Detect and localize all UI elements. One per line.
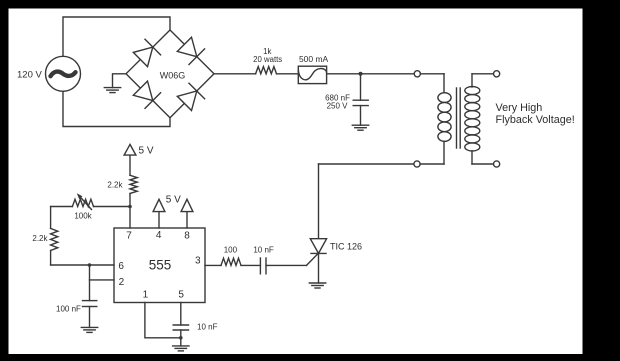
power arrow 5V pin 8 xyxy=(186,212,188,228)
svg-text:1: 1 xyxy=(143,290,149,301)
junction node xyxy=(359,72,363,76)
svg-text:555: 555 xyxy=(149,258,172,273)
svg-text:10 nF: 10 nF xyxy=(197,322,218,331)
ground below SCR xyxy=(309,282,325,284)
svg-text:20 watts: 20 watts xyxy=(253,55,282,64)
svg-text:5 V: 5 V xyxy=(166,194,181,205)
wire R3 to 5V arrow xyxy=(129,155,131,175)
transformer core xyxy=(456,88,458,148)
wire junction down to C3 xyxy=(89,265,91,301)
wire anode from bottom rail xyxy=(318,164,320,239)
wire secondary top to terminal xyxy=(472,73,494,75)
power arrow 5V pin 4 xyxy=(158,212,160,228)
svg-text:2.2k: 2.2k xyxy=(107,181,123,190)
wire terminal to primary coil xyxy=(420,73,444,75)
resistor R3 2.2k xyxy=(130,175,137,193)
node terminal primary bottom xyxy=(414,161,420,167)
ground below C3 xyxy=(81,326,97,328)
junction pot/pin7 xyxy=(128,205,132,209)
IC U1 555 xyxy=(114,228,205,303)
junction pin6/cap branch xyxy=(88,263,92,267)
svg-text:100k: 100k xyxy=(74,212,92,221)
node terminal secondary bottom xyxy=(494,161,500,167)
junction pin1/C4 xyxy=(179,336,183,340)
wire pin7 to resistor R3 xyxy=(129,194,131,207)
capacitor C4 10 nF xyxy=(173,324,188,326)
capacitor C2 10 nF (coupling) xyxy=(259,258,261,274)
svg-text:5: 5 xyxy=(178,290,184,301)
wire pin 7 stub xyxy=(129,207,131,229)
wire top-left from source to bridge xyxy=(63,17,170,56)
wire bottom rail to primary xyxy=(319,163,414,165)
svg-text:3: 3 xyxy=(195,255,201,266)
svg-text:8: 8 xyxy=(184,231,190,242)
svg-text:10 nF: 10 nF xyxy=(253,246,274,255)
AC source V1 120 V xyxy=(46,56,81,91)
wire R5 to pin6 rail xyxy=(50,251,52,266)
svg-text:5 V: 5 V xyxy=(139,145,154,156)
diode D4 (bottom to right edge) xyxy=(177,91,197,111)
wire R2 to C2 xyxy=(241,264,260,266)
capacitor C3 100 nF xyxy=(83,300,97,302)
wire pin 6 xyxy=(51,264,114,266)
diode D2 (top to right edge) xyxy=(177,37,197,57)
wire left branch down xyxy=(50,207,52,229)
wire terminal to primary coil bottom xyxy=(420,163,444,165)
wire secondary bottom to terminal xyxy=(472,163,494,165)
ground below C4 xyxy=(173,345,189,347)
node terminal primary top xyxy=(414,71,420,77)
svg-text:Very High: Very High xyxy=(496,102,543,114)
ground below C1 xyxy=(352,124,368,126)
wire pin 5 to C4 xyxy=(180,303,182,326)
potentiometer R4 100k xyxy=(51,206,73,208)
wire cathode to ground xyxy=(318,253,320,283)
wire pin 3 to R2 xyxy=(205,264,221,266)
wire fuse to transformer terminal xyxy=(327,73,414,75)
node terminal secondary top xyxy=(494,71,500,77)
resistor R2 100 xyxy=(221,258,241,265)
svg-text:500 mA: 500 mA xyxy=(299,54,329,64)
pot wiper arrow xyxy=(80,197,92,210)
svg-text:120 V: 120 V xyxy=(17,70,42,81)
wire C2 to SCR gate xyxy=(266,264,307,266)
wire R1 to fuse F1 xyxy=(277,73,298,75)
svg-text:250 V: 250 V xyxy=(327,102,349,111)
fuse F1 500 mA xyxy=(298,66,326,83)
capacitor C1 680 nF 250 V xyxy=(360,74,362,100)
ground at bridge left vertex xyxy=(113,74,127,88)
resistor R5 2.2k xyxy=(51,228,58,250)
resistor R1 1k 20 watts xyxy=(256,67,277,74)
diode D3 (left to bottom edge) xyxy=(133,81,153,101)
svg-text:2: 2 xyxy=(119,277,125,288)
svg-text:2.2k: 2.2k xyxy=(32,234,48,243)
svg-text:100: 100 xyxy=(224,246,238,255)
bridge edge wires xyxy=(126,30,214,118)
svg-text:TIC 126: TIC 126 xyxy=(330,241,362,251)
svg-text:6: 6 xyxy=(118,261,124,272)
svg-text:Flyback Voltage!: Flyback Voltage! xyxy=(496,114,575,126)
transformer T1 secondary winding xyxy=(465,74,480,164)
power arrow 5V (top) xyxy=(124,144,136,155)
svg-text:7: 7 xyxy=(126,231,132,242)
wire pin 2 xyxy=(90,279,115,281)
thyristor Q1 TIC 126 xyxy=(307,239,327,266)
diode D1 (left to top edge) xyxy=(133,47,153,67)
svg-text:W06G: W06G xyxy=(160,71,186,81)
wire bottom-left from source to bridge xyxy=(63,91,170,126)
transformer T1 primary winding xyxy=(438,74,451,164)
bridge rectifier W06G xyxy=(126,30,214,118)
svg-text:100 nF: 100 nF xyxy=(56,304,81,313)
svg-text:4: 4 xyxy=(156,230,162,241)
wire bridge to resistor R1 xyxy=(214,73,256,75)
wire pin 1 xyxy=(145,303,181,338)
